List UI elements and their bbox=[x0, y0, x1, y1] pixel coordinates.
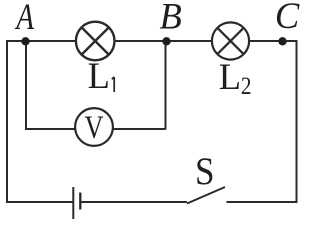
svg-text:L: L bbox=[219, 56, 241, 97]
svg-text:B: B bbox=[159, 0, 181, 36]
svg-text:A: A bbox=[15, 0, 35, 38]
svg-text:C: C bbox=[275, 0, 300, 36]
svg-text:S: S bbox=[195, 150, 215, 193]
svg-text:2: 2 bbox=[241, 73, 252, 101]
svg-text:V: V bbox=[84, 109, 103, 145]
svg-text:L: L bbox=[88, 55, 110, 96]
